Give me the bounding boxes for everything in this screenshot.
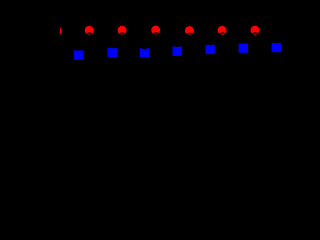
red circle marker C6 [251, 26, 260, 35]
red circle marker C1 [85, 26, 94, 35]
chart canvas (black/transparent background plot) [0, 0, 291, 182]
blue square marker S5 [206, 45, 215, 54]
red circle marker C2 [118, 26, 127, 35]
blue square marker S1 [74, 50, 83, 59]
blue square marker S7 [272, 43, 281, 52]
red circle marker C0 (clipped at left axis) [53, 27, 62, 36]
blue square marker S6 [239, 43, 248, 52]
blue square marker S4 [173, 47, 182, 56]
blue square marker S3 [140, 48, 149, 57]
red circle marker C5 [218, 26, 227, 35]
red circle marker C3 [151, 26, 160, 35]
red circle marker C4 [185, 26, 194, 35]
black data line (zigzag over markers, creates notches) [57, 33, 288, 50]
blue square marker S2 [108, 48, 117, 57]
